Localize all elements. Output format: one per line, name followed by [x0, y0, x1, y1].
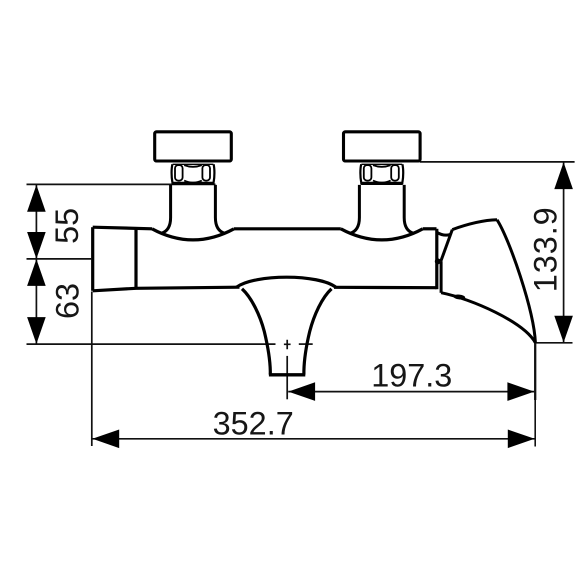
handle base vertical edge	[440, 261, 443, 293]
arrow left 197.3	[288, 382, 315, 401]
spout left edge	[242, 289, 270, 375]
right wall flange	[344, 132, 421, 161]
arrow up 133.9	[554, 162, 573, 189]
arrow up 55 top	[27, 185, 46, 212]
extension line lever tip level right	[535, 342, 572, 344]
pivot dot	[435, 258, 441, 264]
set screw ellipse	[453, 294, 465, 300]
svg-text:352.7: 352.7	[213, 406, 294, 442]
svg-text:55: 55	[49, 208, 85, 244]
handle top edge	[452, 220, 497, 230]
arrow down 133.9	[554, 316, 573, 343]
handle base slant edge	[441, 230, 453, 262]
dimension line 55/63 vertical	[35, 185, 37, 344]
handle right edge	[497, 220, 535, 343]
body outline	[93, 227, 437, 291]
arrow right 197.3	[507, 382, 534, 401]
body bottom edge left	[93, 287, 240, 291]
left wall flange	[155, 132, 232, 161]
handle bottom edge	[441, 293, 535, 343]
body top edge right	[423, 227, 437, 230]
spout right edge	[304, 289, 332, 375]
dimension line 352.7	[92, 438, 534, 440]
body left end cap	[91, 227, 94, 291]
arrow down 63 bottom	[27, 317, 46, 344]
center mark cross at spout outlet	[284, 340, 291, 349]
arrow right 352.7	[508, 430, 535, 449]
right vertical extension line (lever tip)	[534, 342, 536, 400]
extension line top right (wall face level)	[420, 161, 575, 163]
body top edge middle	[234, 227, 341, 230]
extension line 55/63 middle (body axis)	[27, 258, 92, 260]
lever handle	[437, 220, 535, 343]
arrow down 55 bottom	[27, 232, 46, 259]
body top edge left	[93, 227, 152, 229]
saddle under left mount	[152, 229, 234, 240]
extension line 63 bottom / spout axis centerline left	[27, 343, 276, 345]
valve end vertical	[435, 229, 438, 289]
arrow left 352.7	[92, 430, 119, 449]
svg-text:197.3: 197.3	[371, 357, 452, 393]
right hex nut	[360, 164, 403, 185]
spout	[237, 277, 337, 375]
extension line 55 top (nut base level)	[27, 183, 216, 185]
left vertical extension line (body left end)	[91, 292, 93, 447]
svg-text:133.9: 133.9	[528, 206, 564, 292]
adapter arc	[437, 232, 450, 235]
left stem / cone	[161, 185, 224, 233]
cap joint	[134, 229, 137, 288]
dimension line 197.3	[288, 391, 534, 393]
spout hump	[237, 277, 337, 287]
spout mouth	[269, 373, 305, 376]
body bottom edge right	[334, 286, 437, 290]
right stem / cone	[350, 185, 413, 233]
arrow up 63 top	[27, 259, 46, 286]
dimension line 133.9 vertical	[563, 162, 565, 342]
left hex nut	[171, 164, 214, 185]
svg-text:63: 63	[49, 283, 85, 319]
extension line from spout center down	[286, 356, 288, 399]
spout axis centerline right stub	[299, 343, 313, 345]
saddle under right mount	[341, 229, 423, 240]
